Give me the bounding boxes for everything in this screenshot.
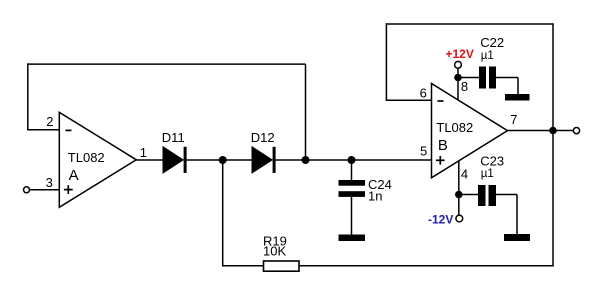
wire xyxy=(223,159,252,161)
op-amp U1 TL082 B xyxy=(432,84,508,178)
svg-text:+12V: +12V xyxy=(446,47,474,61)
wire xyxy=(187,159,223,161)
junction xyxy=(302,156,310,164)
wire xyxy=(517,78,519,95)
input terminal xyxy=(24,187,30,193)
wire xyxy=(28,129,60,131)
output terminal xyxy=(573,128,579,134)
svg-text:4: 4 xyxy=(461,166,468,181)
svg-text:C22: C22 xyxy=(480,35,504,50)
wire xyxy=(552,23,554,130)
-12V terminal xyxy=(456,215,463,222)
wire xyxy=(305,64,307,160)
svg-text:D11: D11 xyxy=(162,130,185,145)
junction xyxy=(455,191,463,199)
resistor R19 xyxy=(264,261,300,271)
pin 4 wire xyxy=(458,161,460,215)
wire xyxy=(516,195,518,235)
svg-text:µ1: µ1 xyxy=(481,50,494,62)
wire xyxy=(27,63,305,65)
svg-text:A: A xyxy=(69,167,79,184)
svg-text:-12V: -12V xyxy=(428,213,453,227)
diode D12 xyxy=(252,147,276,173)
wire xyxy=(496,77,518,79)
wire xyxy=(30,189,60,191)
wire xyxy=(306,159,352,161)
wire xyxy=(458,77,479,79)
wire xyxy=(222,160,224,267)
svg-text:10K: 10K xyxy=(263,244,286,259)
wire xyxy=(276,159,306,161)
pin 8 wire xyxy=(457,68,459,100)
capacitor C22 xyxy=(479,67,496,89)
wire xyxy=(352,159,432,161)
svg-text:D12: D12 xyxy=(251,130,275,145)
svg-text:8: 8 xyxy=(461,79,468,94)
wire xyxy=(136,159,163,161)
svg-text:1: 1 xyxy=(140,145,147,160)
junction xyxy=(454,74,462,82)
ground xyxy=(505,94,530,101)
svg-text:2: 2 xyxy=(46,114,53,129)
diode D11 xyxy=(163,147,187,173)
wire xyxy=(386,99,431,101)
wire xyxy=(386,23,553,25)
svg-text:µ1: µ1 xyxy=(481,168,494,180)
ground xyxy=(504,234,530,241)
svg-text:TL082: TL082 xyxy=(68,150,105,165)
svg-text:7: 7 xyxy=(510,112,517,127)
ground xyxy=(339,235,366,242)
svg-text:5: 5 xyxy=(420,144,427,159)
junction xyxy=(219,156,227,164)
svg-text:C23: C23 xyxy=(480,154,504,169)
capacitor C23 xyxy=(478,185,496,206)
svg-text:3: 3 xyxy=(46,175,53,190)
junction xyxy=(348,156,356,164)
op-amp U1 TL082 A xyxy=(59,112,136,207)
+12V terminal xyxy=(455,61,462,68)
wire xyxy=(385,23,387,101)
wire xyxy=(552,131,554,266)
wire xyxy=(496,194,517,196)
capacitor C24 xyxy=(339,160,366,235)
wire xyxy=(27,63,29,130)
junction xyxy=(549,127,557,135)
wire xyxy=(553,130,573,132)
wire xyxy=(508,130,554,132)
svg-text:TL082: TL082 xyxy=(436,120,473,135)
svg-text:1n: 1n xyxy=(368,189,382,204)
svg-text:B: B xyxy=(438,137,448,154)
wire xyxy=(459,194,478,196)
wire xyxy=(223,265,554,267)
svg-text:6: 6 xyxy=(420,85,427,100)
